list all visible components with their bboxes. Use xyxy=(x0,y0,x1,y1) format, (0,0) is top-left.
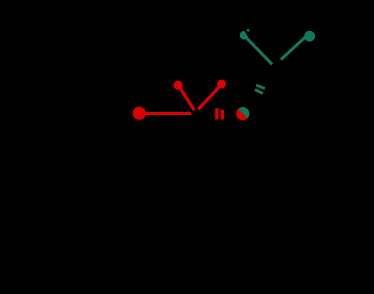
atom O1 (large red oxygen circle) xyxy=(133,107,146,120)
atom O4 red half (bridging oxygen, lower-left half) xyxy=(236,109,247,120)
atom O6 (teal circle up-right) xyxy=(304,31,315,42)
hash mark 1 of stereo bond C-O4 (teal) xyxy=(256,85,265,89)
atom O2 (small red oxygen circle up-left) xyxy=(174,81,183,90)
double bond mark 2 (red vertical bar) xyxy=(221,110,224,120)
bond P-O3 (up-right red bond) xyxy=(198,86,220,109)
bond C-O5 (teal left arm) xyxy=(246,38,272,65)
atom O5 (teal circle up-left) xyxy=(240,31,249,40)
bond O1-P (horizontal red bond) xyxy=(146,112,192,115)
atom O5 fragment dot (small teal remnant) xyxy=(247,29,250,32)
occluding black bond over O5 xyxy=(244,28,251,39)
double bond mark 1 (red vertical bar) xyxy=(215,108,218,119)
atom O4 teal half (bridging oxygen, upper-right half) xyxy=(238,107,249,118)
hash mark 2 of stereo bond C-O4 (teal) xyxy=(255,90,263,94)
bond C-O6 (teal right arm) xyxy=(281,37,306,60)
bond P-O2 (up-left red bond) xyxy=(180,87,195,110)
atom O3 (small red oxygen circle up-right) xyxy=(217,80,226,89)
